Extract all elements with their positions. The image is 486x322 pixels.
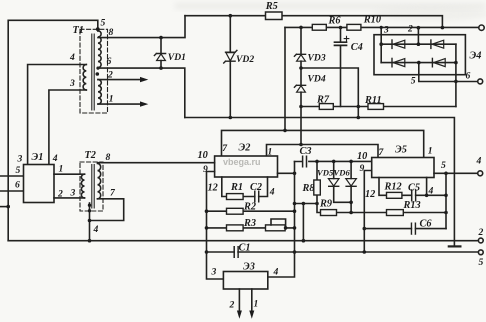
node: T2 tap b [88,209,91,212]
node: R13 right on V1 [444,211,448,215]
node: R12 line on V1 [444,194,448,198]
wire: Э3 output 2 arrow [238,289,240,312]
svg-text:2: 2 [57,189,63,200]
capacitor C6 [412,223,416,234]
wire: R6-R10 rail to top-right terminal [285,26,479,28]
transformer T2 core [92,165,94,209]
node: R3 left [205,226,209,230]
wire: bridge pin 2 drop [417,28,419,45]
node: VD6 on R9-R13 line [349,211,353,215]
svg-text:2: 2 [407,24,413,35]
svg-text:3: 3 [383,25,389,36]
svg-text:C1: C1 [239,243,251,254]
svg-text:4: 4 [52,153,58,164]
wire: trimmer wiper loop [271,219,286,228]
svg-text:7: 7 [110,188,116,199]
svg-text:Э1: Э1 [32,152,44,163]
transformer T2 right winding [98,164,101,199]
node: bus drop on R9 node [302,202,306,206]
wire: Э2 pin 12 and R1-C2 to pin 4 [222,177,268,197]
svg-text:R3: R3 [243,218,256,229]
wire: Э1 pin 1 to T2 [54,173,85,175]
node: top-rail join [441,26,445,30]
node: R6-rail drop on L2 [283,129,287,133]
node: pin3 top [380,26,383,29]
svg-text:5: 5 [101,18,106,29]
svg-text:Э3: Э3 [243,262,255,273]
node: chain bottom on supply line [299,143,303,147]
transformer T1 upper secondary (pins 5/8 - 6) [98,31,101,68]
node: C4 top [339,26,343,30]
wire: Э3 output 1 arrow [251,289,253,312]
svg-text:4: 4 [269,187,275,198]
svg-text:1: 1 [268,147,273,158]
node: VD6 top [349,160,353,164]
svg-text:Э4: Э4 [470,51,482,62]
capacitor C1 [234,247,238,258]
wire: C1 / terminal 5 line [207,251,479,253]
transformer T2 left winding [81,174,84,198]
node: VD5/VD6 bottom join [349,201,353,205]
svg-text:7: 7 [222,143,228,154]
wire: Э1 pin 6 line to left edge [0,190,24,192]
svg-text:5: 5 [479,257,484,268]
resistor R5 [266,12,283,20]
node: VD1 top on pin8 line [159,36,163,40]
wire: V1 vertical [445,173,447,228]
wire: C3 line to Э5 pin 10 [295,160,372,162]
block Э1 [24,165,55,203]
scan smudge top streak [175,3,486,9]
arrow: pin 1 output [140,101,148,106]
scan smudge top-right [370,7,486,21]
resistor R7 [319,104,333,110]
svg-text:C2: C2 [250,182,262,193]
diode VD1 (zener) [160,38,162,69]
wire: R9 step and line to R13 [317,204,446,213]
wire: bridge top row [381,43,456,45]
svg-text:8: 8 [109,27,114,38]
node: A on R9 node [293,202,297,206]
wire: R8 vertical leads [316,161,318,203]
svg-text:T2: T2 [85,150,96,161]
wire: pin1 Э2 to pin7 Э5 line [267,145,379,158]
svg-text:R12: R12 [384,182,402,193]
wire: top rail with R5 to right terminal join [185,16,442,28]
diode bridge D3 [391,58,393,66]
node: A on C1 line [293,250,297,254]
node: VD1 bottom on pin6 line [159,66,163,70]
capacitor C3 [303,156,307,167]
diode VD2 (symmetric zener) [229,16,231,118]
svg-text:VD5: VD5 [317,168,334,178]
diode VD3 (zener) [294,54,305,56]
node: bridge pin 2 tap [417,26,421,30]
resistor R6 [312,24,326,30]
wire: Э1 pin 5 line to left edge [0,175,24,177]
node: T1 pin 6 [96,67,99,70]
svg-text:1: 1 [428,146,433,157]
terminal: 4 [478,171,483,176]
node: pin7 loop tie [88,219,92,223]
diode VD4 (zener) [294,85,305,87]
wire: left-edge stub to mains vertical [0,206,8,208]
node: pin3 on top row [379,42,383,46]
ground chassis bar [449,245,461,247]
wire: L2 supply rail pin7 Э2 to pin1 Э5 [222,130,424,157]
zener chain VD3 VD4 vertical [300,27,302,144]
wire: R3 + trimmer line [207,227,295,229]
svg-text:R8: R8 [302,183,315,194]
node: VD2 bottom on L1 [229,116,233,120]
wire: C6 line [364,228,446,230]
svg-text:4: 4 [69,52,75,63]
svg-text:9: 9 [360,163,365,174]
svg-text:C5: C5 [408,183,420,194]
svg-text:6: 6 [107,56,112,67]
transformer T1 primary winding (pins 4-3) [83,65,86,91]
wire: Э2 right pin to vertical A [278,172,295,174]
svg-text:3: 3 [69,78,75,89]
resistor R13 [387,210,404,216]
wire: R6/R10 rail from left corner down to L2 [284,27,286,130]
node: right pin on vertical A [293,172,297,176]
node: pin9 rail on C1 line [205,250,209,254]
capacitor C5 [412,190,416,201]
svg-text:R13: R13 [403,200,421,211]
diode bridge D2 [430,40,432,48]
wire: T1 pin 3 down to Э1 top-right pin [49,90,86,165]
svg-text:10: 10 [357,151,367,162]
svg-text:6: 6 [15,180,20,191]
svg-text:C3: C3 [300,146,312,157]
svg-text:VD4: VD4 [308,74,326,85]
wire: Э5 pin 9 rail down to terminal-5 line [364,171,371,253]
svg-text:5: 5 [411,76,416,87]
transformer T1 dashed box [80,29,108,113]
svg-text:9: 9 [203,164,208,175]
wire: Э1 pin 2 to T2 pin 3 [54,197,85,199]
wire: bridge left side link [380,44,382,62]
resistor R2 [227,208,244,214]
wire: Э2 pin 9 corner down rail [207,172,224,280]
node: pin5 on bottom row [417,61,421,65]
svg-text:10: 10 [198,150,208,161]
transformer T1 lower secondary (pins 2 - 1) [98,80,101,105]
wire: Э5 pin 12 and R12-C5 line [379,178,446,196]
wire: VD3/VD4 midpoint link to right and down to L1 [301,68,358,118]
resistor R9 [321,210,337,216]
node: R8 bottom [315,202,319,206]
svg-text:7: 7 [379,147,385,158]
svg-text:R5: R5 [265,1,278,12]
wire: Э5 pin 4 drop [426,178,428,196]
node: bridge right bottom row [454,61,458,65]
svg-text:8: 8 [106,152,111,163]
wire: T1 pin 1 output with arrow [98,103,141,105]
svg-text:C4: C4 [351,42,363,53]
wire: R9 node horizontal [295,203,318,205]
node: pin9 rail on terminal-5 line [363,250,367,254]
diode bridge D1 [391,40,393,48]
svg-text:vbega.ru: vbega.ru [223,157,261,167]
svg-text:4: 4 [93,224,99,235]
node: R2 left [205,209,209,213]
svg-text:Э5: Э5 [395,145,407,156]
svg-text:R2: R2 [243,202,256,213]
block Э5 [372,158,434,178]
svg-text:VD6: VD6 [334,168,351,178]
node: stub junction [6,205,10,209]
node: bridge right on terminal line [454,80,458,84]
svg-text:1: 1 [59,164,64,175]
node: T1 pins 5/8 tie [96,27,100,31]
node: R8 top on C3 line [315,160,319,164]
node: R9-node drop on bus [302,239,306,243]
capacitor C4 (polarized) [340,28,342,107]
svg-text:2: 2 [478,227,484,238]
svg-text:6: 6 [466,71,471,82]
wire: Э5 pin 5 to terminal 4 [434,172,478,174]
svg-text:1: 1 [109,94,114,105]
svg-text:4: 4 [476,156,482,167]
wire: T1 pin 2 output with arrow [98,79,141,81]
diode bridge Э4 box [374,35,465,75]
wire: bridge right side [455,44,457,106]
svg-text:5: 5 [16,165,21,176]
diode VD6 [350,161,352,212]
wire: bridge pin 5 to lower-right terminal [419,63,478,82]
node: VD3 chain top [299,26,303,30]
svg-text:R7: R7 [316,95,330,106]
node: T2 tap a [88,204,91,207]
svg-text:R9: R9 [319,199,332,210]
svg-text:1: 1 [254,299,259,310]
transformer T1 core [92,34,94,110]
node: T2 pin4 on bus [88,239,92,243]
resistor R1 [227,194,244,200]
svg-text:R11: R11 [364,95,382,106]
node: V1 on pin5 line [444,172,448,176]
trimmer R3 element [266,225,286,231]
svg-text:4: 4 [428,186,434,197]
resistor R12 [387,192,402,198]
node: VD5 top [332,160,336,164]
wire: T1 pin 6 line, corner down to rail L1 [98,68,185,117]
wire: bridge pin 3 drop [380,27,382,44]
resistor R3 [227,225,244,231]
terminal: 5 [478,250,483,255]
svg-text:R6: R6 [328,16,342,27]
capacitor C2 [255,191,259,202]
wire: bridge bottom row [381,62,456,64]
node: wiper tie [284,226,288,230]
wire: vertical A down to Э3 pin 4 [268,162,295,278]
svg-text:3: 3 [17,154,23,165]
svg-text:R10: R10 [363,15,381,26]
resistor R11 [368,104,384,110]
svg-text:2: 2 [229,300,235,311]
svg-text:T1: T1 [73,25,84,36]
svg-text:3: 3 [211,267,217,278]
diode bridge D4 [431,58,433,66]
svg-text:VD1: VD1 [168,52,186,63]
node: zener-link vertical end on L1 [357,116,361,120]
node: chain on R7 line [299,105,303,109]
wire: T1 pin 8 line rising to top rail [98,16,185,38]
terminal: 2 [478,238,483,243]
svg-text:4: 4 [273,267,279,278]
block Э2 [215,156,278,177]
svg-text:12: 12 [208,183,218,194]
wire: T2 pin 7 loop [90,199,124,221]
wire: drop from R9 node to bus [302,204,304,241]
node: pin4 on R12 line [425,194,429,198]
wire: T1 pin 4 down to Э1 top-left pin [28,65,87,165]
block Э3 [223,272,267,290]
svg-text:R1: R1 [230,182,243,193]
terminal: top right [479,25,484,30]
wire: bottom common bus [8,240,478,242]
terminal: right (bridge 6) [478,79,483,84]
wire: rail L1 across to right side, down to ground [185,118,455,247]
transformer T2 dashed box [80,162,103,211]
node: pin9 rail on C6 line [363,227,367,231]
diode VD5 [334,161,351,202]
node: T1 pin 2 [96,72,100,76]
svg-text:VD2: VD2 [236,54,254,65]
svg-text:2: 2 [107,70,113,81]
wire: mains feed left vertical and top run to T1 pin 5 [8,20,98,240]
svg-text:3: 3 [70,188,76,199]
resistor R8 [314,180,321,195]
arrow: pin 2 output [140,77,148,82]
node: VD3/VD4 junction [299,66,303,70]
svg-text:Э2: Э2 [239,143,251,154]
node: link on R7 line [357,105,361,109]
svg-text:C6: C6 [420,219,433,230]
svg-text:5: 5 [441,160,446,171]
node: pin2 on top row [417,42,421,46]
svg-text:VD3: VD3 [308,53,326,64]
wire: T2 pin 8 to Э2 pin 10 [98,162,215,164]
node: VD2 top on top rail [229,14,233,18]
node: R2 right [293,209,297,213]
wire: T2 pin 4 drop to bus [89,203,91,241]
wire: R2 line [207,210,295,212]
node: R3 right [293,226,297,230]
svg-text:12: 12 [365,189,375,200]
wire: R7-R11 line [301,106,456,108]
resistor R10 [347,24,361,30]
